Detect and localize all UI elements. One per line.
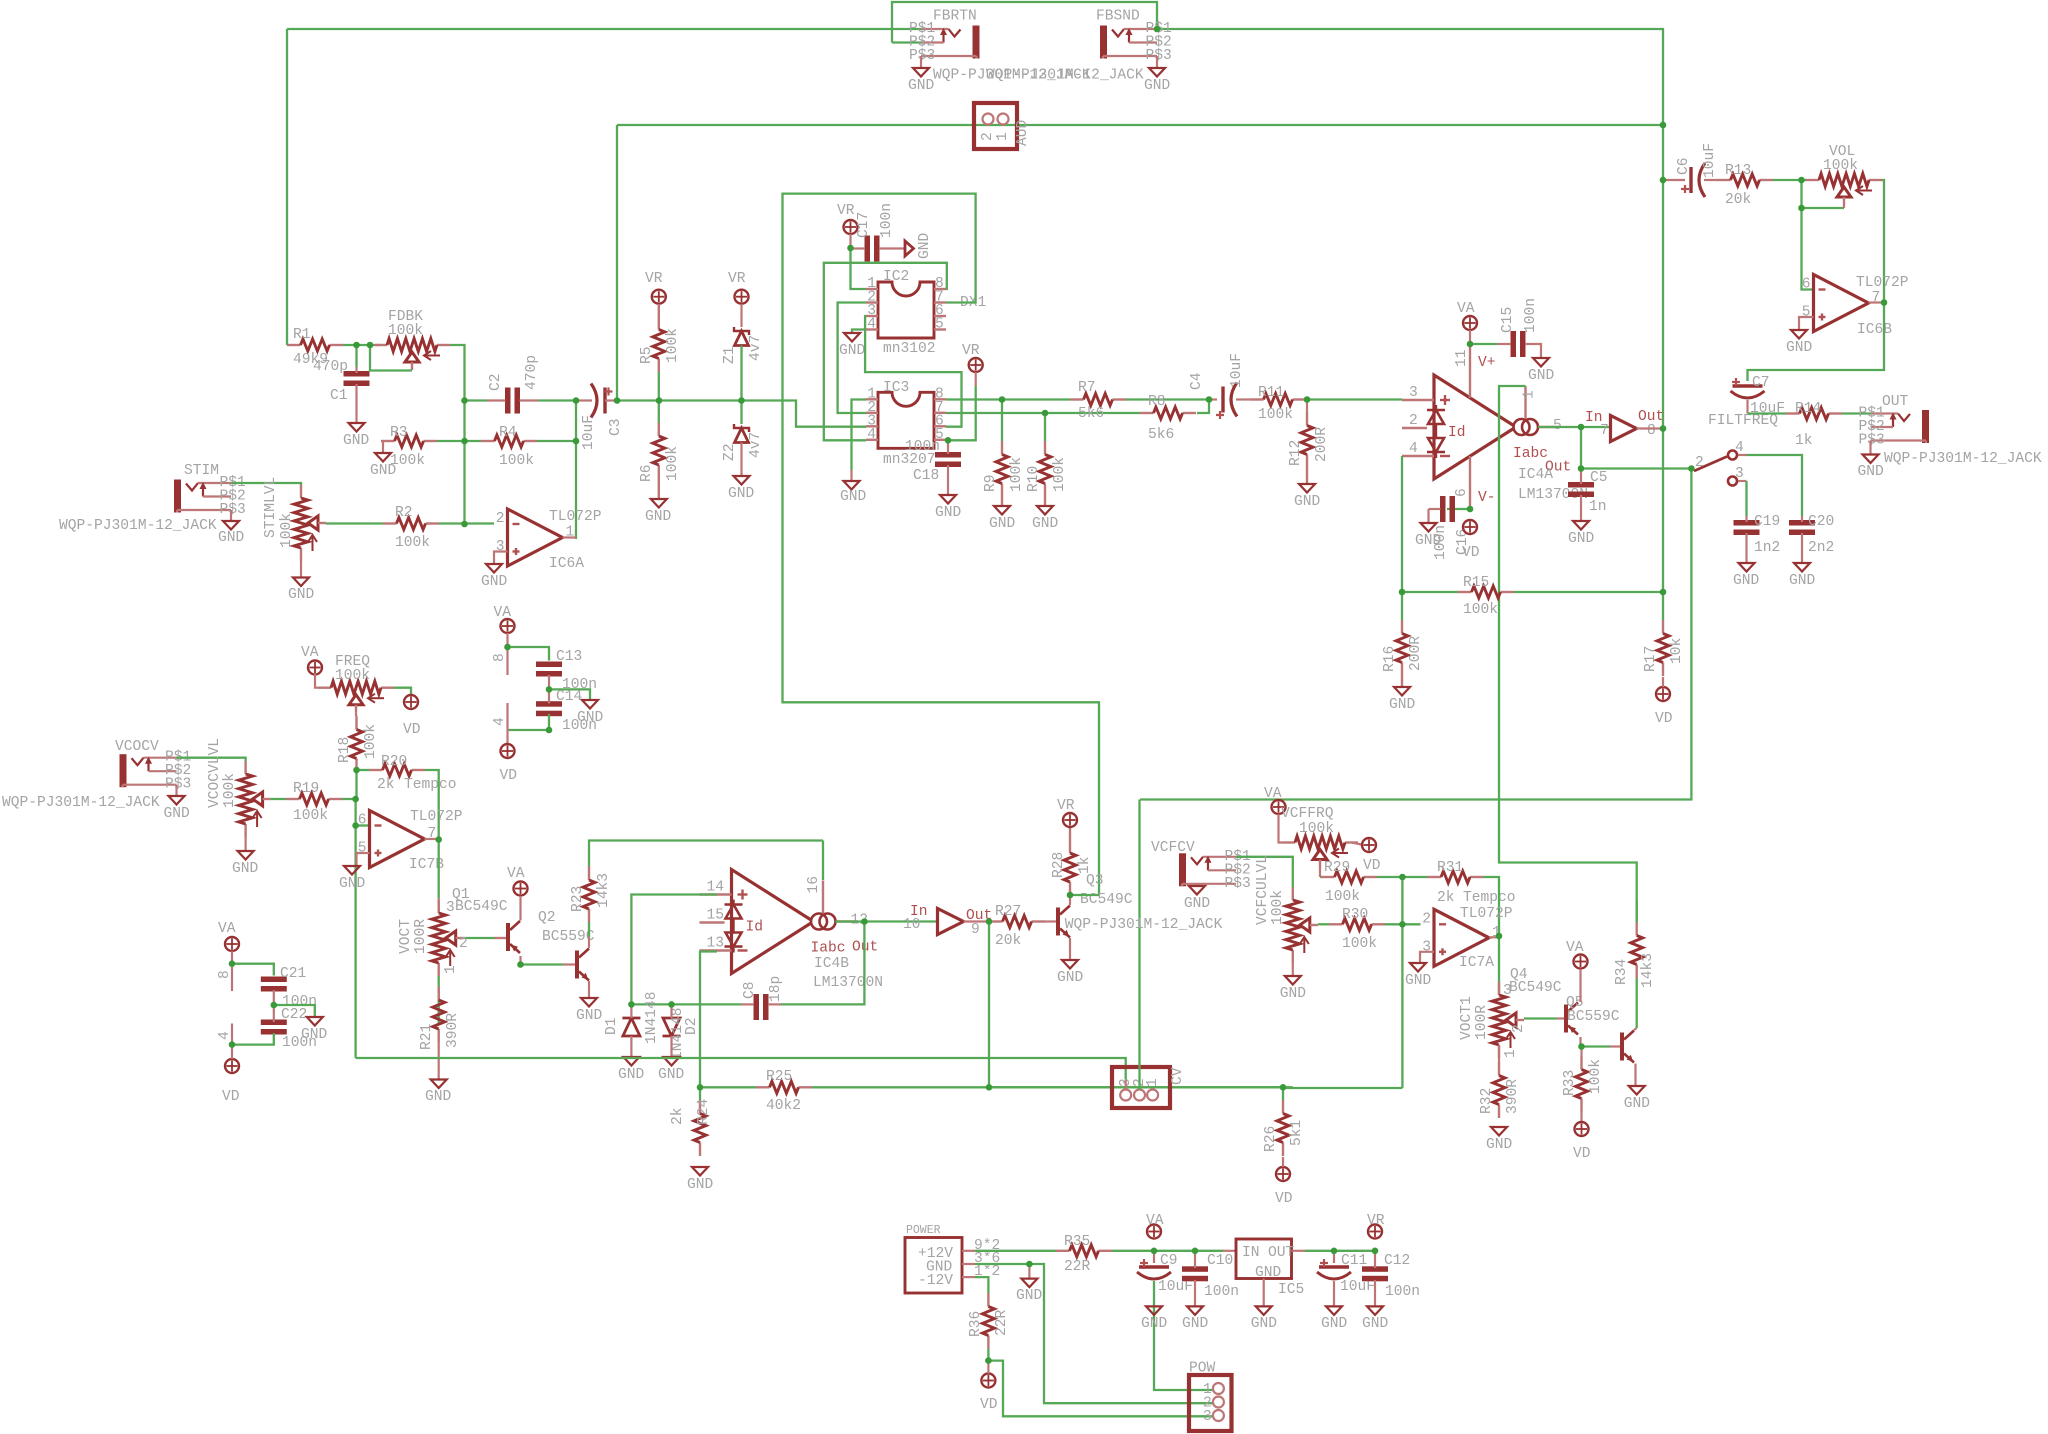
svg-text:2: 2 [1422,911,1431,927]
svg-text:100k: 100k [363,724,379,759]
wire VOCT wiper lead [495,937,506,939]
svg-text:P$3: P$3 [1146,48,1172,64]
ground R6 [651,499,667,508]
wire C6 right lead [1704,179,1717,181]
svg-text:GND: GND [1486,1137,1513,1153]
junction C2-R4-C3 [573,397,580,404]
wire C5 bottom lead [1580,495,1582,521]
svg-text:GND: GND [839,343,866,359]
buffer IC4B output [938,909,964,935]
wire FBSND P$1 to bus corner [1157,29,1663,125]
svg-text:100k: 100k [335,668,370,684]
wire C4 right lead [1236,398,1250,400]
wire VA to VCFFRQ [1279,814,1283,843]
wire Q1 collector [588,937,590,948]
svg-text:10uF: 10uF [1702,143,1718,178]
resistor R21 [438,987,440,1001]
svg-text:3: 3 [446,900,455,916]
wire VD lead C22 [231,1045,233,1059]
svg-text:R27: R27 [995,904,1021,920]
svg-text:WQP-PJ301M-12_JACK: WQP-PJ301M-12_JACK [1065,917,1223,933]
svg-text:GND: GND [1280,986,1307,1002]
wire VR vertical to C18 node [948,386,976,440]
resistor R5 [658,304,660,330]
supply VD VCFFRQ [1362,838,1376,852]
svg-text:5k6: 5k6 [1078,406,1104,422]
wire DX1 net IC2 pin7 to Q3 collector [783,194,1100,895]
svg-text:VA: VA [1146,1213,1164,1229]
ground Q4 [1629,1086,1645,1095]
junction C3 right / AUD drop [614,397,621,404]
svg-text:8: 8 [492,653,508,662]
wire GND row lead [1028,1264,1030,1279]
svg-text:VD: VD [1655,711,1673,727]
wire IC3 pin1 gnd lead [850,470,852,481]
svg-text:100k: 100k [1258,407,1293,423]
junction VR rail [1372,1248,1379,1255]
wire R23 top to loop [589,841,823,867]
svg-text:GND: GND [1568,531,1595,547]
wire FDBK wiper to junction [370,345,412,371]
wire Q5 base lead [1557,1017,1564,1019]
wire switch c3 lead [1738,480,1747,482]
junction D1 [628,1001,635,1008]
resistor R15 [1458,591,1472,593]
wire IC6A pin3 to gnd [494,552,508,565]
capacitor C17 [865,236,871,262]
wire VA node to C10 [1154,1250,1195,1252]
svg-text:FBRTN: FBRTN [933,9,977,25]
wire buffer out to bus [1637,427,1664,429]
wire C17 to IC2 pin1 [851,248,867,289]
wire R20 right to IC7B out [425,770,439,840]
op-amp IC7B [370,811,425,868]
wire Z1 top lead [740,304,742,327]
wire Q1 collector green [588,922,590,937]
wire C19 top lead [1745,516,1747,522]
wire R26 top [1282,1087,1284,1100]
wire C12 bottom lead [1374,1280,1376,1306]
junction R27 node [986,918,993,925]
resistor R30 [1329,923,1343,925]
wire D2 top lead [670,1004,672,1018]
svg-text:100k: 100k [1325,889,1360,905]
wire VOCT wiper to Q2 [464,937,495,939]
wire R25-R27 vertical [988,922,990,1088]
svg-text:GND: GND [1405,973,1432,989]
svg-text:VD: VD [1363,858,1381,874]
svg-text:2k: 2k [670,1107,686,1125]
wire STIMLVL bottom lead [300,561,302,578]
junction C21-C22 [271,1002,278,1009]
junction out-C5 [1578,424,1585,431]
ground C17 (right-pointing) [905,241,914,256]
svg-text:R33: R33 [1562,1070,1578,1096]
ground Q3 [1062,960,1078,969]
wire Q1 emitter to gnd [588,981,590,998]
svg-text:VA: VA [507,866,525,882]
ground FBSND P$3 [1149,68,1165,77]
svg-text:2k: 2k [377,777,395,793]
wire C13 gnd wire [549,689,590,700]
svg-text:C13: C13 [556,649,582,665]
svg-text:Iabc: Iabc [1513,446,1548,462]
svg-text:R15: R15 [1463,575,1489,591]
ground POWER GND [1021,1279,1037,1288]
junction IC7B out [435,836,442,843]
svg-text:VOCT: VOCT [398,919,414,954]
junction buffer out bus [1660,425,1667,432]
svg-text:4v7: 4v7 [748,432,764,458]
transistor Q1 BC549C [575,951,579,979]
svg-text:GND: GND [1858,464,1885,480]
svg-text:C15: C15 [1500,307,1516,333]
resistor R16 [1401,620,1403,634]
connector VCOCV jack [120,754,127,787]
wire C11 top lead [1333,1251,1335,1263]
wire R34 top green [1636,900,1638,922]
junction C17 [847,245,854,252]
svg-text:VR: VR [1367,1213,1385,1229]
wire POWER pin 9*2 stub [962,1250,975,1252]
wire VCO bottom bus [356,1058,1126,1080]
resistor R3 [381,440,395,442]
svg-text:3: 3 [1203,1409,1212,1425]
svg-text:2k: 2k [1437,890,1455,906]
svg-text:IC5: IC5 [1278,1282,1304,1298]
wire Q4 collector [1634,1028,1637,1030]
wire R17 to VD [1662,677,1664,687]
wire pin8 stub TL072 [506,647,508,675]
wire VR lead IC3 [975,372,977,386]
wire OUT P$3 to gnd [1869,441,1871,455]
zener Z2 [734,424,749,432]
svg-text:7: 7 [1600,423,1609,439]
wire Q5 to Q4 base [1582,1045,1611,1047]
svg-text:6: 6 [358,813,367,829]
ground STIM P$3 [223,521,239,530]
svg-text:IC6A: IC6A [549,556,584,572]
svg-text:FBSND: FBSND [1096,9,1140,25]
supply VA Q2 [514,882,528,896]
wire IC2 pin2 to IC3 pin2 [838,303,866,414]
svg-text:POWER: POWER [906,1224,941,1237]
svg-text:C18: C18 [913,468,939,484]
svg-text:Id: Id [746,920,764,936]
wire D node [631,1003,671,1005]
wire C10 top lead [1194,1251,1196,1268]
resistor R12 [1306,412,1308,426]
wire VCFCULVL bottom lead [1292,963,1294,976]
svg-text:mn3102: mn3102 [883,341,936,357]
svg-text:VA: VA [218,921,236,937]
svg-text:V-: V- [1478,490,1496,506]
capacitor C2 [505,388,511,414]
svg-text:6: 6 [1454,488,1470,497]
wire buffer9 out lead [964,920,990,922]
wire C9 top lead [1153,1251,1155,1263]
wire R19 right [342,798,356,800]
wire IC6B pin5 gnd [1799,317,1814,330]
svg-text:R29: R29 [1324,860,1350,876]
wire IC5 GND stub [1263,1279,1265,1307]
wire C18 bottom lead [947,465,949,495]
wire VR to C17 junction [849,234,851,248]
junction Q3-R28 [1067,892,1074,899]
svg-text:GND: GND [840,489,867,505]
svg-text:GND: GND [908,78,935,94]
wire IC7B out lead [425,838,439,840]
capacitor C12 [1362,1266,1388,1272]
wire R25 right [812,1086,1283,1088]
wire C13 top wire [508,647,550,661]
svg-text:3: 3 [1409,385,1418,401]
svg-text:C17: C17 [856,212,872,238]
svg-text:R32: R32 [1479,1088,1495,1114]
svg-text:GND: GND [1016,1288,1043,1304]
resistor R6 [658,423,660,437]
svg-text:R3: R3 [390,425,408,441]
svg-text:100n: 100n [1523,298,1539,333]
ground R9 [994,506,1010,515]
svg-text:R19: R19 [293,781,319,797]
svg-text:BC549C: BC549C [1509,980,1562,996]
resistor R24 [699,1100,701,1114]
supply VA IC4A [1463,316,1477,330]
wire Z1 bottom [740,346,742,401]
svg-text:10uF: 10uF [1340,1279,1375,1295]
resistor R17 [1662,620,1664,634]
ground VCFCV P$3 [1189,886,1205,895]
wire R18 bottom [355,772,357,799]
wire Q4 collector to R34 [1636,976,1638,1028]
wire IC6B out to C7 [1748,303,1885,382]
IC IC5 regulator [1236,1239,1292,1279]
junction C1-FDBK wiper [367,342,374,349]
wire Q5 emitter down [1579,1037,1581,1045]
capacitor C19 [1734,520,1760,526]
OTA IC4B LM13700 [732,870,814,974]
capacitor C10 [1182,1266,1208,1272]
svg-text:VR: VR [837,203,855,219]
junction R4 right [573,438,580,445]
svg-text:VA: VA [1264,786,1282,802]
resistor R7 [1070,398,1084,400]
svg-text:C10: C10 [1207,1253,1233,1269]
diode D2 1N4148 [663,1018,680,1036]
svg-text:C12: C12 [1384,1253,1410,1269]
supply VA rail [1147,1225,1161,1239]
wire IC4B pin16 wire [822,841,824,881]
connector POW [1189,1375,1232,1431]
wire net STIM to FBRTN P$1 [287,28,921,30]
ground IC5 [1256,1306,1272,1315]
svg-text:VD: VD [1462,545,1480,561]
svg-text:100k: 100k [665,328,681,363]
svg-text:100k: 100k [395,535,430,551]
wire C15 right lead [1525,344,1541,358]
wire Q3 node to DX1 riser [1070,894,1099,896]
ground IC6B pin5 [1791,330,1807,339]
wire R3 row [465,440,482,442]
wire C14 top lead [548,689,550,703]
wire switch c3 to C19 [1745,481,1747,516]
junction D2 [668,1001,675,1008]
svg-text:Iabc: Iabc [811,941,846,957]
wire C18 top lead [947,440,949,454]
potentiometer FDBK [374,344,387,346]
svg-text:GND: GND [1184,896,1211,912]
svg-text:R36: R36 [968,1311,984,1337]
wire C20 top lead [1801,516,1803,522]
wire R3 to R4 junction [437,440,465,442]
op-amp IC6A [508,509,563,566]
svg-text:100k: 100k [1342,936,1377,952]
svg-text:TL072P: TL072P [1460,906,1513,922]
svg-text:GND: GND [1528,368,1555,384]
svg-text:10uF: 10uF [1158,1279,1193,1295]
resistor R8 [1140,412,1154,414]
connector OUT jack [1922,410,1929,443]
capacitor C13 [536,662,562,668]
connector AUD [974,103,1017,149]
svg-text:1: 1 [1145,1078,1161,1087]
ground C5 [1573,521,1589,530]
wire C2 left lead [487,399,506,401]
svg-text:Z1: Z1 [722,346,738,364]
wire IC5 OUT to C11 [1305,1250,1334,1252]
wire R33 to VD [1580,1112,1582,1121]
svg-text:R26: R26 [1263,1126,1279,1152]
wire VA to V+ junction [1469,330,1471,343]
svg-text:R1: R1 [293,327,311,343]
wire C16 left lead [1429,508,1441,510]
svg-text:18p: 18p [768,976,784,1002]
junction V+ C15 [1467,341,1474,348]
wire C5 top lead [1580,469,1582,485]
resistor R19 [286,798,300,800]
wire VOCT top lead [438,898,440,913]
wire C2 to C3/junction [538,399,576,401]
junction IC4B out [861,918,868,925]
op-amp IC7A [1434,909,1489,966]
transistor Q5 BC559C [1564,1005,1568,1033]
resistor R4 [481,440,495,442]
svg-text:8: 8 [217,970,233,979]
wire Q1 base lead [563,963,575,965]
wire CV pin3 lead [1125,1080,1127,1090]
wire C16 to V- [1447,508,1470,510]
svg-text:100k: 100k [279,513,295,548]
wire VCFCULVL wiper to R30 [1318,923,1329,925]
svg-text:STIM: STIM [184,463,219,479]
wire C21 top wire [232,964,274,976]
svg-text:IC6B: IC6B [1857,322,1892,338]
svg-text:2: 2 [1409,413,1418,429]
wire C21 bottom lead [273,990,275,1005]
svg-text:R35: R35 [1064,1234,1090,1250]
svg-text:GND: GND [687,1177,714,1193]
potentiometer STIMLVL [300,485,302,498]
svg-text:R34: R34 [1614,958,1630,985]
wire R1 to FDBK [343,344,381,346]
svg-text:GND: GND [728,486,755,502]
ground VCOCV P$3 [169,796,185,805]
svg-text:VA: VA [1566,940,1584,956]
ground C15 [1533,358,1549,367]
wire Z2 bottom lead [740,443,742,477]
svg-text:GND: GND [1415,533,1442,549]
svg-text:P$3: P$3 [165,777,191,793]
svg-text:4: 4 [217,1031,233,1040]
svg-text:R20: R20 [381,754,407,770]
svg-text:R5: R5 [639,346,655,364]
wire pin4 stub C22 [231,1024,233,1045]
svg-text:IC4B: IC4B [814,956,849,972]
wire VOL wiper net [1802,180,1845,208]
transistor Q3 BC549C [1056,908,1060,936]
svg-text:WQP-PJ301M-12_JACK: WQP-PJ301M-12_JACK [59,518,217,534]
wire VA to Q5 collector [1579,969,1581,1002]
wire VA to FREQ [315,674,318,688]
svg-text:VD: VD [500,768,518,784]
wire FBSND P$3 to gnd [1156,56,1158,68]
wire D2 to C8 [672,1003,742,1005]
connector CV [1112,1067,1170,1108]
wire C2 node to cap [465,399,488,401]
svg-text:POW: POW [1189,1361,1216,1377]
ground VCFCULVL [1285,976,1301,985]
svg-text:C4: C4 [1189,372,1205,390]
wire R36 bottom [987,1349,989,1361]
wire Q4 base lead [1610,1045,1620,1047]
svg-text:VR: VR [1057,798,1075,814]
wire VA to C13 junction [506,633,508,647]
capacitor C18 [935,452,961,458]
svg-text:14k3: 14k3 [1640,953,1656,988]
resistor R1 [287,344,301,346]
svg-text:P$3: P$3 [909,48,935,64]
svg-text:GND: GND [1057,970,1084,986]
svg-text:100k: 100k [1270,890,1286,925]
junction VOL wiper [1798,205,1805,212]
junction R30 right [1399,921,1406,928]
wire VCOCV P$3 to gnd [175,785,177,796]
wire FREQ wiper to R18 [355,713,357,716]
ground C21/C22 [307,1017,323,1026]
svg-text:2: 2 [1695,455,1704,471]
ground IC3 pin1 [844,481,860,490]
svg-text:GND: GND [1032,516,1059,532]
svg-text:R25: R25 [766,1069,792,1085]
wire bus vertical [1662,125,1664,592]
svg-text:GND: GND [218,530,245,546]
ground IC6A pin3 [486,564,502,573]
svg-text:C9: C9 [1160,1253,1178,1269]
svg-text:VD: VD [222,1089,240,1105]
capacitor C4 [1221,387,1224,413]
wire C1 bottom lead [355,384,357,423]
supply VR IC3 pin8 [969,358,983,372]
capacitor C21 [261,977,287,983]
svg-text:470p: 470p [313,359,348,375]
svg-text:4: 4 [492,717,508,726]
wire R14 to OUT jack [1842,412,1871,414]
svg-text:R21: R21 [419,1023,435,1050]
svg-text:P$3: P$3 [1225,876,1251,892]
junction VA rail [1151,1248,1158,1255]
svg-text:BC559C: BC559C [542,929,595,945]
